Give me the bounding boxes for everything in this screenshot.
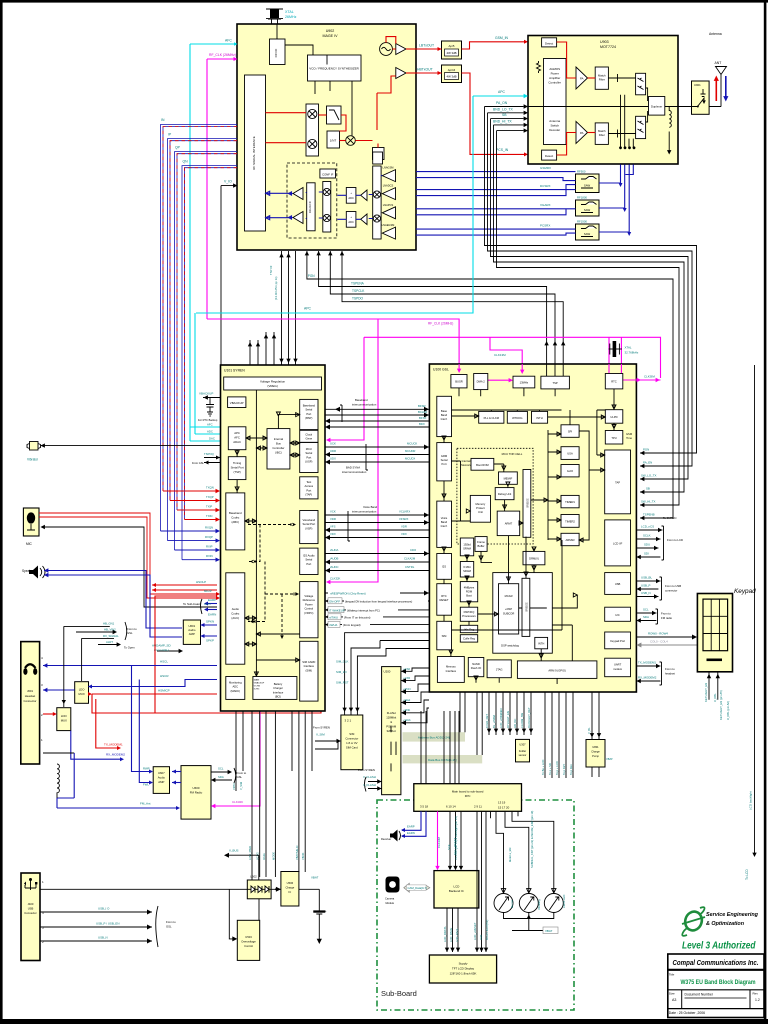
svg-text:1.2: 1.2 (755, 998, 760, 1002)
svg-text:USA: USA (567, 452, 573, 456)
svg-text:RWR: RWR (143, 767, 150, 771)
svg-text:V-LCDC (pin 13) & Backlight (p: V-LCDC (pin 13) & Backlight (pin 15) (454, 816, 458, 860)
svg-text:RXQN: RXQN (205, 526, 213, 530)
battery charger interface (253, 677, 297, 700)
svg-text:AMP: AMP (189, 632, 195, 636)
SIM connector (341, 715, 363, 770)
svg-text:GRM: GRM (441, 454, 448, 458)
svg-text:LCD_nCS: LCD_nCS (641, 525, 654, 529)
wire GSM_IN (462, 42, 525, 49)
svg-text:Boot ROM: Boot ROM (476, 463, 489, 467)
TX RX MODEM wires (96, 699, 118, 748)
svg-text:VBACKUP: VBACKUP (254, 682, 265, 685)
svg-text:Codec: Codec (231, 516, 240, 520)
svg-text:SRAM: SRAM (463, 547, 472, 551)
svg-text:To e + SD: To e + SD (548, 763, 552, 775)
V_BUS arrow (227, 855, 259, 889)
boot rom box (471, 458, 494, 470)
svg-text:Serial: Serial (305, 408, 312, 412)
svg-text:DYLIGHT_EN: DYLIGHT_EN (506, 711, 510, 728)
svg-text:UDR: UDR (330, 449, 336, 453)
buffer box (475, 537, 487, 552)
VBACKUP box (228, 397, 246, 408)
svg-text:PA_EN: PA_EN (643, 461, 652, 465)
svg-text:Internal: Internal (274, 437, 284, 441)
svg-text:TX_MODEM1: TX_MODEM1 (104, 743, 123, 747)
svg-text:Detect: Detect (545, 41, 553, 45)
svg-text:RXIN: RXIN (206, 554, 213, 558)
svg-text:Buffer: Buffer (477, 544, 484, 548)
FPC board connector (414, 784, 522, 812)
svg-text:SIM: SIM (442, 634, 448, 638)
wire LB TxOUT (416, 48, 442, 50)
SPKN SPKP wires (201, 624, 218, 626)
svg-text:+DSP: +DSP (505, 607, 512, 611)
debug unit box (495, 488, 514, 500)
svg-text:KEYLIGHT_EN: KEYLIGHT_EN (704, 683, 708, 702)
svg-text:Baseband: Baseband (303, 404, 316, 408)
svg-text:LCD_RSCL: LCD_RSCL (455, 927, 459, 942)
svg-text:AFC: AFC (225, 39, 232, 43)
svg-text:Switch: Switch (550, 124, 559, 128)
svg-text:Vibrator: Vibrator (27, 458, 39, 462)
PLL CLKM box (479, 411, 504, 423)
svg-text:Document Number: Document Number (685, 993, 714, 997)
svg-text:UDX: UDX (330, 457, 336, 461)
I2C wires (636, 608, 672, 625)
USB main wire (40, 888, 247, 890)
svg-text:Duplexer: Duplexer (651, 105, 662, 109)
svg-text:USB_I O: USB_I O (98, 907, 110, 911)
svg-text:RF SIGNAL INTERFACE: RF SIGNAL INTERFACE (252, 136, 256, 169)
svg-text:MCUDX: MCUDX (405, 457, 415, 461)
svg-text:USB_N: USB_N (98, 936, 108, 940)
svg-text:Folder: Folder (519, 749, 526, 753)
svg-text:DMA 2: DMA 2 (477, 380, 486, 384)
svg-text:Port: Port (442, 462, 447, 466)
J601 headset connector (21, 642, 40, 764)
RX mixer column (323, 182, 331, 233)
svg-text:(VRPC): (VRPC) (304, 611, 313, 615)
svg-text:DCSRX: DCSRX (540, 184, 551, 188)
svg-text:Interf.: Interf. (441, 417, 448, 421)
SCL SDA FM (211, 771, 229, 773)
RX RF mixer column (373, 166, 381, 239)
TX RX modem wires (636, 661, 675, 686)
svg-text:VBAT: VBAT (545, 929, 553, 933)
svg-text:Serial Port: Serial Port (231, 465, 244, 469)
wires to FPC top from left (421, 711, 459, 784)
svg-text:HD_DC: HD_DC (513, 719, 517, 728)
svg-text:modem: modem (613, 667, 623, 671)
svg-text:+PCN: +PCN (403, 687, 411, 691)
mic red wires (39, 513, 217, 594)
RX dashed region (287, 163, 337, 238)
transceiver U902 (237, 24, 416, 250)
svg-text:BND_LO_TX: BND_LO_TX (493, 107, 514, 111)
svg-text:FLASH: FLASH (387, 711, 396, 715)
DMA2 box (474, 374, 488, 390)
left magenta vertical (206, 59, 208, 319)
svg-text:V_BL: V_BL (587, 727, 591, 734)
svg-text:Apr5: Apr5 (449, 44, 455, 48)
svg-text:sensor: sensor (519, 753, 527, 757)
svg-text:Keypad: Keypad (734, 588, 756, 595)
svg-text:FM radio: FM radio (661, 616, 672, 620)
svg-text:3 2 1: 3 2 1 (345, 719, 352, 723)
svg-text:Frame: Frame (477, 540, 485, 544)
svg-text:U903: U903 (600, 40, 609, 44)
svg-text:ALARM_SW: ALARM_SW (520, 712, 524, 728)
svg-text:(From keypad): (From keypad) (343, 623, 361, 627)
svg-text:iAUDC: iAUDC (330, 565, 339, 569)
svg-text:LCD_RSCE: LCD_RSCE (449, 927, 453, 942)
svg-text:MCAR: MCAR (505, 594, 513, 598)
sim card interface (300, 641, 318, 701)
svg-text:APC: APC (304, 307, 312, 311)
svg-text:(IBC): (IBC) (275, 451, 282, 455)
svg-text:Level 3 Authorized: Level 3 Authorized (682, 941, 756, 952)
svg-text:LCD backlight: LCD backlight (749, 791, 753, 810)
svg-text:U502: U502 (250, 875, 257, 879)
svg-text:Band: Band (441, 413, 448, 417)
svg-text:From to LCD: From to LCD (667, 538, 683, 542)
svg-text:U200: U200 (384, 670, 391, 674)
svg-text:CAM_Data[0-7]: CAM_Data[0-7] (408, 886, 427, 890)
control single wires (325, 590, 429, 628)
svg-text:& Optimization: & Optimization (706, 921, 745, 927)
svg-text:Headset: Headset (25, 694, 36, 698)
svg-text:VBACKUP: VBACKUP (230, 401, 244, 405)
svg-text:Interf.: Interf. (441, 524, 448, 528)
svg-text:VCK: VCK (330, 510, 336, 514)
PA amp 1 (576, 67, 588, 89)
svg-text:SW_LO_TX: SW_LO_TX (641, 474, 656, 478)
USB connector J400 (21, 873, 40, 961)
svg-text:Compal Communications Inc.: Compal Communications Inc. (673, 960, 759, 967)
ARM9 GPIO box (517, 661, 597, 679)
switch vertical taps (621, 95, 634, 148)
svg-text:SIM: SIM (349, 732, 355, 736)
wire IP pair (168, 139, 238, 541)
svg-text:Unit: Unit (478, 510, 483, 514)
TX filter box (327, 106, 342, 124)
svg-text:SAW: SAW (584, 184, 591, 188)
svg-text:QP: QP (175, 146, 181, 150)
svg-text:SDA: SDA (643, 615, 649, 619)
svg-text:Overvoltage: Overvoltage (241, 940, 256, 944)
svg-text:(MADC): (MADC) (230, 689, 240, 693)
USB box (605, 573, 631, 595)
svg-text:Charge: Charge (285, 886, 294, 890)
svg-text:RTC: RTC (611, 380, 617, 384)
svg-text:Port: Port (306, 488, 311, 492)
svg-text:VBATS&LIC: VBATS&LIC (295, 845, 299, 860)
WTDOG box (507, 411, 527, 423)
fpc to display long wires (477, 811, 486, 952)
speaker blue wires (44, 571, 182, 629)
svg-text:connector: connector (665, 589, 677, 593)
svg-text:LCD: LCD (454, 885, 460, 889)
svg-text:Amplifier: Amplifier (549, 76, 560, 80)
svg-text:Sub-Board: Sub-Board (381, 989, 417, 998)
fpc to lcd backend wires (450, 811, 461, 867)
svg-text:PCSRX: PCSRX (540, 224, 550, 228)
svg-text:MEMIF: MEMIF (504, 477, 513, 481)
svg-text:VDX: VDX (330, 532, 336, 536)
svg-text:(From IT on this point): (From IT on this point) (344, 615, 370, 619)
svg-text:GSL: GSL (127, 631, 133, 635)
TX mixer block (306, 104, 319, 156)
clock entry stubs (458, 364, 460, 370)
svg-text:SUBDIAL_KNT (pin 23) & INCOM_E: SUBDIAL_KNT (pin 23) & INCOM_ENP (pin 19… (530, 811, 534, 868)
svg-text:VRTC: VRTC (232, 783, 236, 790)
svg-text:Size: Size (669, 992, 675, 996)
offset mixer (346, 136, 356, 146)
svg-text:KEYLIGHT_EN (pin A5): KEYLIGHT_EN (pin A5) (719, 690, 723, 720)
svg-text:V_FLASH: V_FLASH (363, 783, 376, 787)
svg-text:(BSP): (BSP) (305, 416, 312, 420)
svg-text:LDO: LDO (79, 688, 86, 692)
svg-text:Detect: Detect (545, 154, 553, 158)
svg-text:Decoder: Decoder (549, 128, 560, 132)
svg-text:USB_N: USB_N (641, 591, 651, 595)
folder sensor U307 (516, 739, 530, 762)
svg-text:FWL: FWL (143, 783, 149, 787)
svg-text:TXQP: TXQP (206, 495, 214, 499)
svg-text:Codec: Codec (231, 612, 240, 616)
receiver (381, 830, 401, 842)
svg-text:Voice Band: Voice Band (363, 505, 378, 509)
svg-text:Data Bus DATA[0-15]: Data Bus DATA[0-15] (428, 758, 457, 762)
inductor in PA (669, 107, 671, 128)
svg-text:ADC: ADC (348, 196, 354, 200)
wire vibrator (41, 445, 222, 447)
TX IQ red arrows (163, 491, 217, 520)
svg-text:V_IO: V_IO (224, 180, 232, 184)
i2s audio serial port (300, 548, 318, 574)
voice band interface box (437, 501, 452, 547)
keypad row col wires (636, 636, 694, 638)
svg-text:MOT7724: MOT7724 (600, 45, 616, 49)
svg-text:FM Radio: FM Radio (190, 791, 203, 795)
DSP region box (493, 573, 553, 654)
svg-text:3 5 18: 3 5 18 (420, 805, 428, 809)
PGN line (307, 251, 673, 518)
svg-text:APC: APC (498, 90, 506, 94)
svg-text:DAC: DAC (209, 437, 215, 441)
svg-text:U503: U503 (245, 935, 252, 939)
U200 flash (382, 667, 401, 795)
monitoring adc (226, 677, 245, 700)
svg-text:iAUDA: iAUDA (330, 548, 339, 552)
far right vertical to LCD (754, 365, 756, 853)
svg-text:(BCI): (BCI) (275, 695, 281, 699)
RTC RESET box (437, 584, 452, 616)
DCXO U902 sub (270, 39, 286, 65)
svg-text:Motor e_EN: Motor e_EN (508, 848, 512, 862)
svg-text:From SYREN: From SYREN (313, 726, 330, 730)
svg-text:ADAC: ADAC (233, 440, 241, 444)
svg-text:BFSX: BFSX (419, 416, 426, 420)
16:1 box (373, 148, 385, 160)
svg-text:BCLKR: BCLKR (418, 410, 427, 414)
svg-text:Memory: Memory (446, 665, 456, 669)
svg-text:I2S Audio: I2S Audio (303, 554, 315, 558)
svg-text:(keypad ON induction from key: (keypad ON induction from keypad interfa… (345, 599, 412, 603)
wire IN pair (161, 125, 238, 532)
ARM7 box (497, 511, 520, 535)
svg-text:(TAP): (TAP) (305, 493, 312, 497)
svg-text:13 19: 13 19 (498, 801, 506, 805)
NAND flash IF box (468, 658, 484, 677)
svg-text:+RNb: +RNb (403, 708, 411, 712)
svg-text:VFSRX: VFSRX (399, 517, 408, 521)
supply TFT display (429, 955, 496, 983)
SIM box (437, 621, 452, 650)
vertical bus U902 to U101 with TSP label (282, 251, 296, 365)
wire QP pair (175, 152, 238, 550)
SAW filter 3 (576, 224, 600, 240)
flash to bus stubs (391, 726, 396, 771)
vibrator (27, 442, 41, 462)
svg-text:RF1900: RF1900 (577, 220, 587, 224)
svg-text:I2C: I2C (616, 613, 620, 617)
svg-text:26MHz: 26MHz (285, 15, 297, 19)
crystal 32k legs (609, 337, 621, 364)
svg-text:128Mbit: 128Mbit (386, 716, 396, 720)
logo (682, 907, 705, 936)
svg-text:APC: APC (234, 431, 240, 435)
6Mbit SRAM box (460, 562, 473, 578)
svg-text:J601: J601 (27, 689, 34, 693)
TX amp 1 (396, 44, 406, 55)
crystal X902 32k (609, 348, 622, 350)
svg-text:Memory: Memory (476, 502, 486, 506)
VCO / FREQUENCY SYNTHESIZER (308, 55, 362, 81)
svg-text:IN: IN (161, 118, 165, 122)
svg-text:LNAGSM: LNAGSM (383, 166, 394, 170)
clock gene + usp (300, 430, 318, 442)
svg-text:PA: PA (580, 77, 584, 81)
svg-text:(ABC): (ABC) (231, 520, 239, 524)
svg-text:Apr16: Apr16 (448, 68, 456, 72)
J601 pin2 red (43, 713, 54, 715)
svg-text:Port: Port (306, 562, 311, 566)
wires below U100 (485, 692, 533, 735)
svg-text:Debug Unit: Debug Unit (498, 492, 512, 496)
internal bus controller (267, 429, 290, 469)
svg-text:PCS_IN: PCS_IN (496, 148, 509, 152)
svg-text:Cell B-LED: Cell B-LED (562, 895, 566, 908)
svg-text:VFS: VFS (330, 525, 336, 529)
svg-text:J400: J400 (28, 902, 34, 906)
svg-text:Voiceband: Voiceband (303, 518, 316, 522)
svg-text:UCK: UCK (330, 442, 336, 446)
wire PCS_IN (462, 73, 525, 154)
svg-text:INTH: INTH (538, 642, 544, 646)
svg-text:MICIP: MICIP (204, 589, 212, 593)
I2C box (605, 607, 631, 621)
RX amp triangles (293, 188, 303, 200)
svg-text:TSPENB: TSPENB (643, 513, 655, 517)
svg-text:Serial: Serial (305, 558, 312, 562)
svg-text:IC: IC (289, 890, 292, 894)
svg-text:4MBytes: 4MBytes (464, 586, 475, 590)
svg-text:ULPD: ULPD (610, 415, 617, 419)
svg-text:Band: Band (441, 520, 448, 524)
RX pre amps (361, 190, 367, 201)
backend to display wires (447, 908, 458, 952)
duplexer (649, 97, 665, 116)
svg-text:MAGE IV: MAGE IV (323, 34, 339, 38)
magenta branch to U101 CLK32K (329, 337, 378, 582)
svg-text:Protect: Protect (476, 506, 485, 510)
VBACKUP cap (203, 398, 221, 417)
svg-text:CLK13M: CLK13M (437, 836, 441, 848)
U600 FM radio (181, 766, 211, 820)
INTH2 box (535, 637, 548, 648)
svg-text:HSOLP: HSOLP (196, 580, 206, 584)
13MHz box (513, 376, 535, 388)
junction dots (619, 146, 622, 149)
LNA triangles at right edge (382, 170, 395, 182)
svg-text:intercommunication: intercommunication (352, 510, 377, 514)
MEMIF box (499, 472, 518, 484)
svg-text:LOW_PWR: LOW_PWR (248, 846, 252, 860)
svg-text:TXIN: TXIN (206, 514, 212, 518)
camera data arrow (404, 883, 430, 892)
U100 internal wires (442, 388, 616, 684)
TSPDO line (342, 251, 563, 364)
blue down arrow (725, 76, 727, 97)
svg-text:headset: headset (665, 672, 675, 676)
svg-text:DCXO: DCXO (274, 48, 278, 57)
svg-text:Boot: Boot (466, 594, 472, 598)
svg-text:VBACKUP: VBACKUP (199, 392, 213, 396)
svg-text:CONF IF: CONF IF (322, 173, 333, 177)
svg-text:(VREG): (VREG) (267, 384, 278, 388)
keypad bottom wires (709, 672, 718, 700)
speaker icon (22, 566, 45, 579)
memory interface box (437, 657, 464, 683)
short pins into U101 top (250, 332, 274, 365)
red up arrow (715, 80, 717, 101)
svg-text:USB_P: USB_P (641, 584, 651, 588)
blue verticals to U607 (132, 666, 151, 772)
svg-text:AUXI: AUXI (204, 602, 211, 606)
svg-text:Camera: Camera (385, 897, 395, 901)
svg-text:1/NT: 1/NT (330, 139, 337, 143)
APC ADAC box (228, 427, 246, 450)
SAW to switch blue wires (599, 165, 621, 184)
svg-text:Voltage Regulation: Voltage Regulation (260, 380, 286, 384)
svg-text:LED: LED (479, 935, 483, 940)
svg-text:ARM 9 (GPIO): ARM 9 (GPIO) (548, 669, 566, 673)
svg-text:PGN: PGN (308, 274, 316, 278)
V_IO wire (221, 186, 234, 446)
svg-text:PA_ON: PA_ON (496, 101, 508, 105)
svg-text:To SYREN: To SYREN (663, 516, 676, 520)
svg-text:VGARX: VGARX (540, 203, 551, 207)
svg-text:(TSP): (TSP) (233, 470, 240, 474)
J601 pin3 blue (43, 689, 75, 691)
svg-text:Backend IC: Backend IC (449, 889, 464, 893)
svg-text:SRAM: SRAM (463, 569, 472, 573)
antenna switch box 1 (636, 73, 646, 95)
svg-text:TFT LCD Display: TFT LCD Display (452, 967, 475, 971)
USB wires (636, 576, 681, 601)
